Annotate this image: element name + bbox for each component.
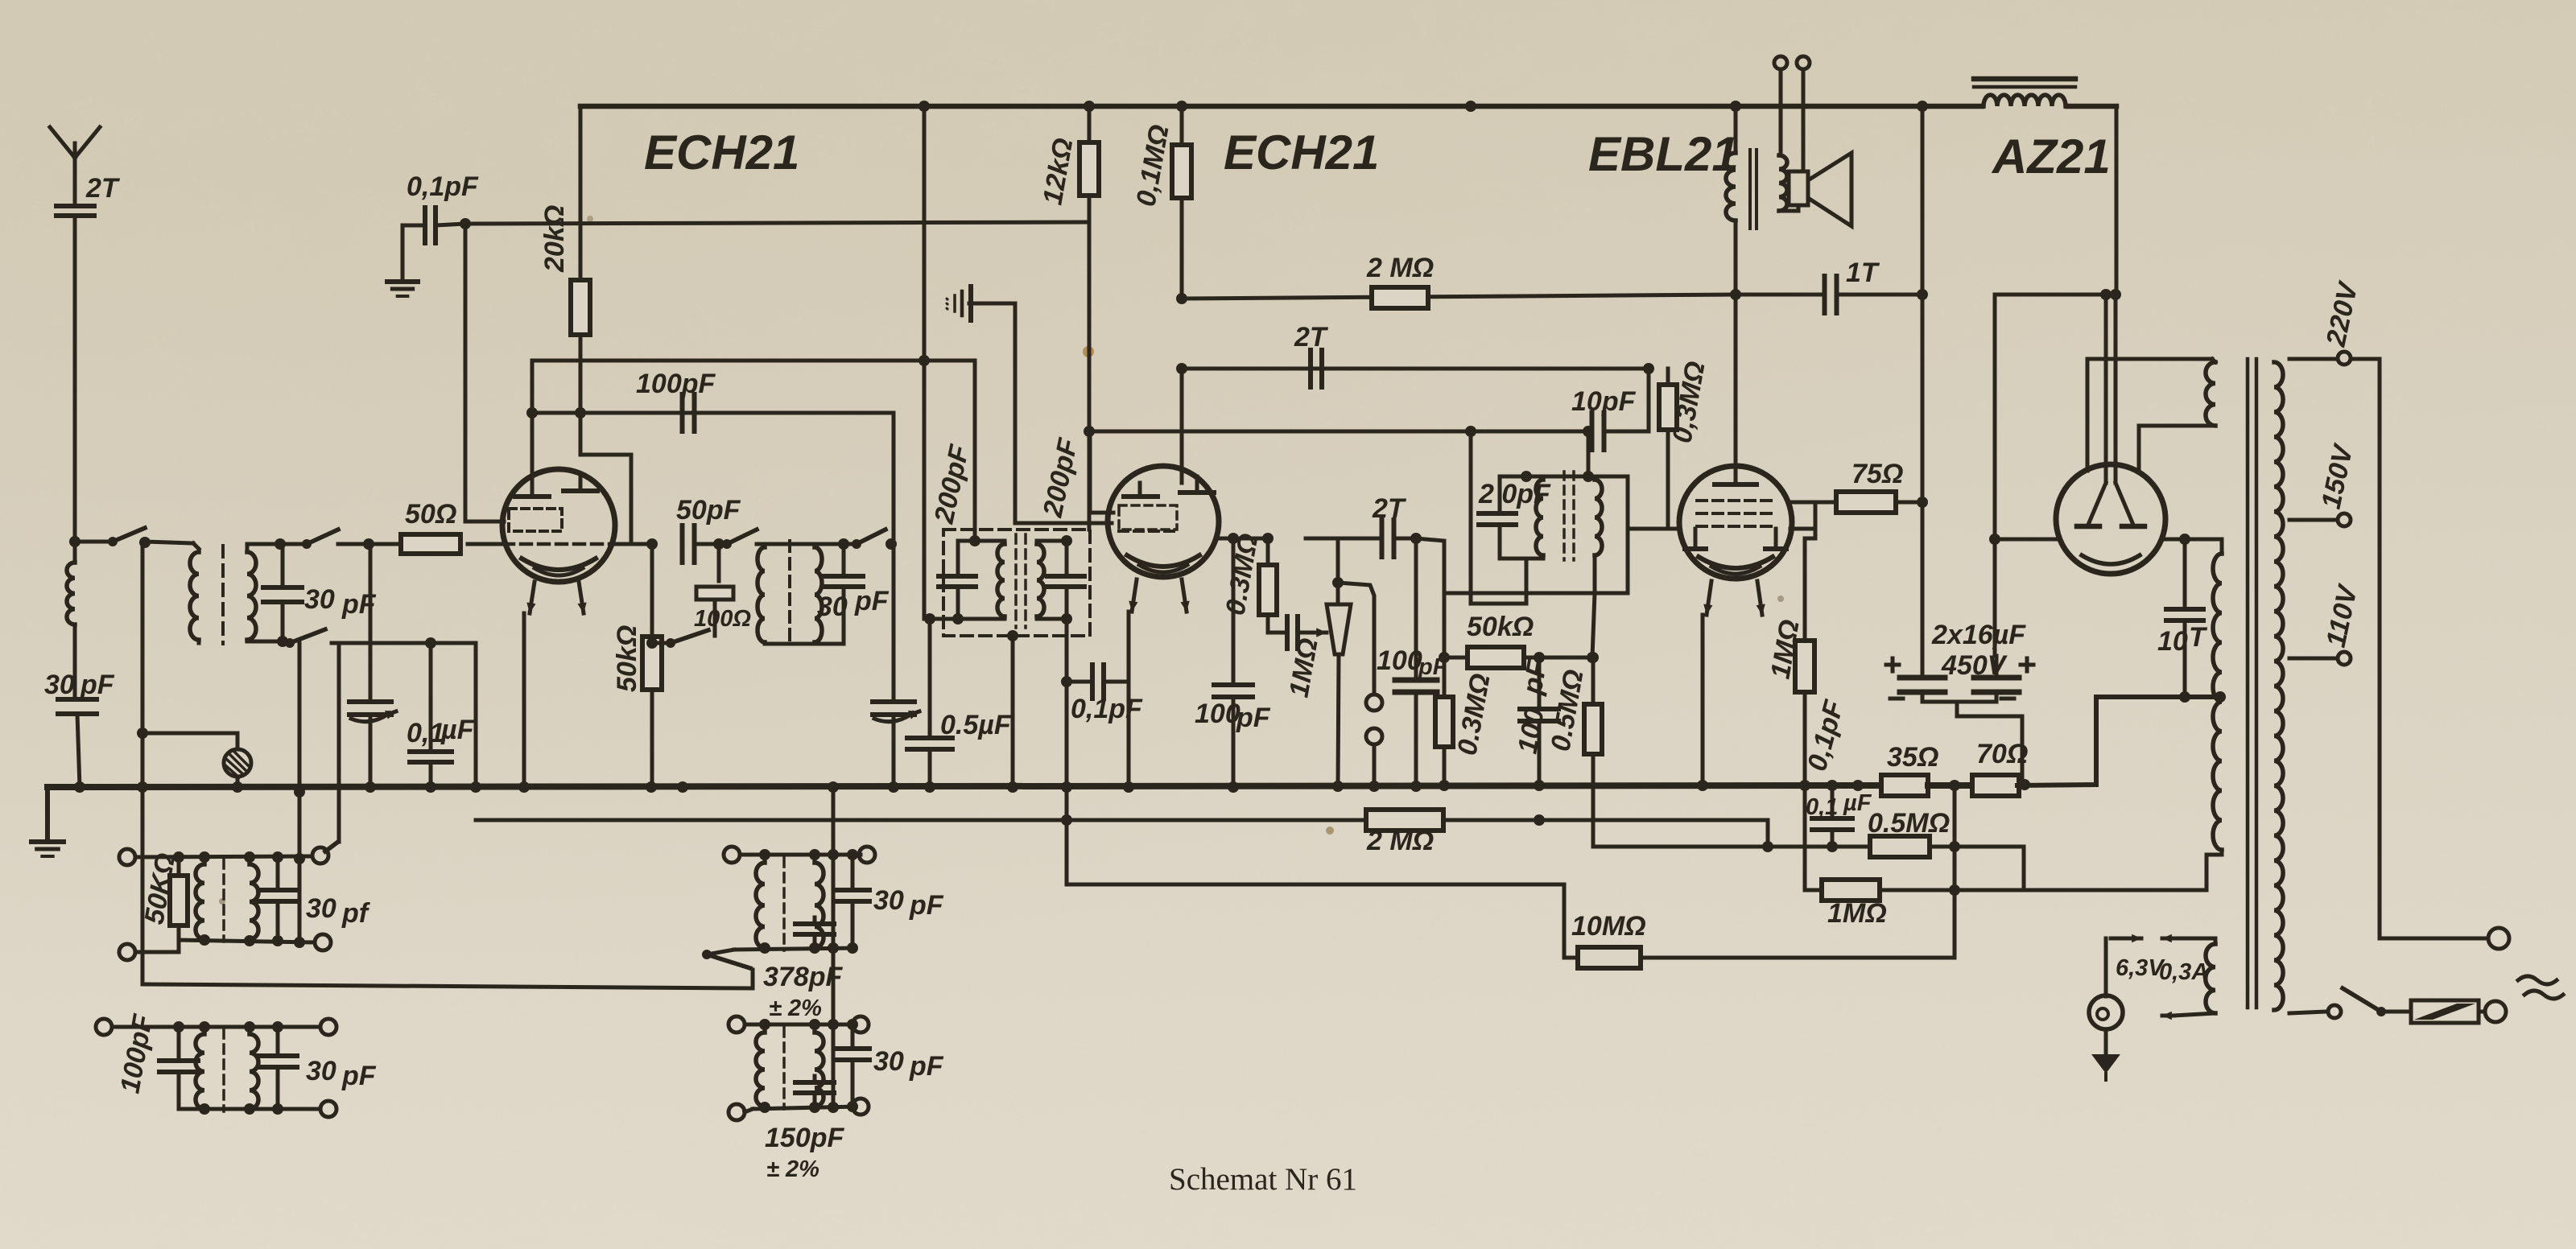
- wire AVC line: [332, 641, 476, 645]
- capacitor coupling to pot: [1285, 616, 1290, 649]
- variable capacitor C-tune1 (osc): [369, 544, 373, 699]
- svg-text:2T: 2T: [85, 173, 121, 204]
- wire L1 2M line: [476, 820, 1768, 847]
- svg-text:0,1: 0,1: [1806, 794, 1838, 820]
- resistor 0.3Mohm det: [1262, 533, 1274, 544]
- capacitor 2x16uF a: [1900, 675, 1945, 681]
- tap 150V: [2289, 518, 2336, 522]
- wire heater 5V left drop: [2086, 359, 2090, 471]
- wire EBL anode right: [1790, 527, 1815, 531]
- IF2 bottom rail: [1500, 557, 1526, 561]
- junction: [838, 538, 849, 550]
- svg-text:pF: pF: [909, 890, 944, 921]
- wire tube1 cathode to bus: [522, 613, 526, 787]
- IF2 core dashed: [1563, 472, 1566, 560]
- terminal 150 right bottom: [852, 1099, 869, 1115]
- speaker terminals: [1774, 56, 1787, 69]
- svg-text:0.5MΩ: 0.5MΩ: [1868, 808, 1950, 839]
- 150 top rail: [745, 1023, 855, 1027]
- tube2 grid dashed: [1119, 530, 1179, 533]
- wire 6.3V top to heaters: [2173, 938, 2215, 944]
- dashed alignment box: [943, 530, 1090, 636]
- resistor 50kohm osc: [650, 544, 654, 637]
- ground symbol IF (rotated): [968, 286, 973, 320]
- svg-text:30: 30: [873, 1046, 904, 1077]
- terminal sec1 right top: [312, 847, 328, 864]
- wire 1099 link: [1067, 787, 1564, 958]
- ground symbol lamp: [2091, 1054, 2120, 1074]
- capacitor int 150: [795, 1080, 834, 1085]
- tube1 grid dashed line: [503, 542, 616, 546]
- wire secondary top to switch line: [247, 544, 280, 552]
- svg-text:µF: µF: [440, 715, 475, 745]
- terminal sec2 left: [96, 1019, 112, 1035]
- wire IF1 bottom rail: [765, 642, 844, 644]
- tap 220V: [2289, 357, 2336, 361]
- resistor 12kohm: [1080, 142, 1099, 196]
- svg-text:± 2%: ± 2%: [769, 995, 822, 1021]
- junction: [1762, 841, 1773, 852]
- capacitor 30pF 378: [836, 888, 869, 892]
- transformer core dashed: [221, 546, 225, 644]
- junction: [646, 538, 658, 550]
- wire lamp branch arrow: [2104, 938, 2108, 996]
- svg-text:30: 30: [306, 1056, 336, 1086]
- wire EBL anode vertical: [1734, 106, 1738, 153]
- resistor 35ohm in bus: [1881, 775, 1928, 796]
- wire vert 1148 top: [923, 106, 927, 619]
- svg-text:10pF: 10pF: [1571, 386, 1637, 417]
- antenna: [73, 143, 77, 203]
- capacitor 100pF IF2 in: [1214, 682, 1253, 687]
- output transformer primary: [1726, 153, 1736, 221]
- resistor 100ohm: [717, 544, 721, 581]
- junction: [1084, 426, 1095, 437]
- wire 2M line: [1182, 295, 1736, 299]
- wire mains top right: [2351, 359, 2486, 938]
- junction: [460, 218, 471, 229]
- resistor 70ohm in bus: [1972, 775, 2019, 796]
- wire mid vertical: [832, 787, 836, 948]
- svg-text:0,1pF: 0,1pF: [1071, 694, 1143, 724]
- svg-text:20kΩ: 20kΩ: [539, 205, 570, 273]
- svg-text:100: 100: [1377, 645, 1422, 676]
- svg-text:EBL21: EBL21: [1588, 127, 1739, 181]
- junction: [1534, 814, 1545, 826]
- wire 448 corner into box: [973, 361, 977, 541]
- capacitor 30pF antenna: [58, 697, 97, 702]
- junction: [1410, 533, 1422, 544]
- EBL cathode arrows: [1707, 581, 1711, 615]
- capacitor 30pF 150: [836, 1046, 869, 1051]
- power transformer core: [2246, 359, 2250, 1008]
- junction: [1949, 884, 1960, 896]
- capacitor 200pF left: [939, 574, 976, 579]
- svg-text:450V: 450V: [1941, 650, 2008, 681]
- junction: [713, 538, 724, 550]
- wire to 50ohm: [369, 542, 399, 546]
- wire 5V bottom: [2139, 426, 2215, 471]
- svg-text:30: 30: [44, 670, 75, 700]
- box right unit top rail: [1037, 539, 1067, 543]
- junction: [1643, 363, 1654, 374]
- svg-text:1T: 1T: [1846, 258, 1880, 288]
- terminal 378 right: [859, 847, 875, 863]
- wire cap left to ground: [402, 225, 425, 280]
- junction: [2179, 534, 2190, 545]
- junction: [1917, 289, 1928, 300]
- switch SW1c: [283, 641, 287, 643]
- svg-text:100pF: 100pF: [636, 369, 716, 399]
- wire 448 line left segment: [532, 359, 975, 363]
- wire switch to coil: [193, 543, 199, 549]
- wire 536 line: [1089, 430, 1471, 434]
- terminal 150 left bottom: [729, 1104, 745, 1120]
- junction: [1583, 426, 1594, 437]
- IF1 core dashed: [788, 541, 791, 645]
- resistor 0.3Mohm AVC: [1443, 657, 1447, 697]
- wire AVC corner down: [474, 643, 478, 787]
- capacitor 0.1pF AVC: [423, 208, 427, 243]
- wire pot top: [1336, 538, 1340, 604]
- junction: [363, 538, 374, 550]
- resistor 50kohm det: [1468, 647, 1524, 668]
- wire elco bottoms join: [1922, 700, 1992, 704]
- HV center tap: [2179, 691, 2190, 703]
- wire tube2 output right: [1216, 537, 1268, 541]
- IF2 top rail: [1500, 475, 1588, 479]
- capacitor 10T: [2166, 607, 2203, 612]
- wire EBL cathode to bus: [1701, 615, 1705, 785]
- resistor 2Mohm bottom: [1366, 810, 1443, 831]
- EBL grids dashed: [1697, 499, 1774, 502]
- svg-text:2 0pF: 2 0pF: [1478, 479, 1551, 509]
- terminal 378 left: [724, 847, 740, 863]
- svg-text:T: T: [2189, 622, 2208, 653]
- junction: [1176, 293, 1187, 304]
- wire 50k line: [1525, 593, 1595, 657]
- wire 536 branch down: [1471, 431, 1526, 604]
- svg-text:10: 10: [2157, 626, 2188, 657]
- svg-text:50kΩ: 50kΩ: [612, 625, 642, 692]
- wire EBL right junction: [1814, 502, 1818, 538]
- wire EBL screen right: [1792, 501, 1815, 505]
- variable capacitor C-tune2: [892, 544, 896, 699]
- wire IF2 sec bottom down: [1593, 559, 1597, 593]
- 378 bottom rail: [707, 950, 734, 954]
- svg-text:30: 30: [873, 885, 904, 916]
- tube2 vertical anode: [1180, 369, 1184, 483]
- resistor 1Mohm bottom: [1822, 880, 1880, 901]
- wire mains bottom out: [2289, 1012, 2326, 1013]
- wire heater winding 5V top: [2087, 357, 2212, 361]
- capacitor 30pF sec2: [258, 1053, 297, 1058]
- trimmer hatched disc: [224, 749, 251, 777]
- resistor 0.5Mohm bottom: [1870, 836, 1930, 857]
- terminal 150 left top: [729, 1016, 745, 1033]
- switch SW osc C: [666, 638, 675, 648]
- svg-text:30: 30: [304, 584, 335, 615]
- capacitor 100pF det: [1520, 707, 1558, 711]
- svg-text:ECH21: ECH21: [644, 126, 799, 179]
- tube ECH21 #2 envelope: [1108, 466, 1219, 577]
- wire tune1 to bus: [369, 715, 373, 787]
- capacitor 20pF IF2: [1479, 511, 1516, 516]
- wire right column vertical: [298, 643, 302, 942]
- wire 6.3V bottom arrow: [2173, 1013, 2215, 1016]
- wire to padder circle: [142, 733, 237, 748]
- coil IF2 secondary: [1595, 480, 1602, 555]
- wire disc to bus: [236, 779, 240, 787]
- junction: [919, 355, 930, 366]
- capacitor 1T NFB: [1823, 276, 1827, 313]
- antenna coil: [67, 563, 75, 624]
- tube1 top electrodes: [530, 483, 535, 495]
- wire lamp to ground: [2104, 1029, 2108, 1054]
- box core dashed: [1014, 534, 1018, 628]
- svg-text:ECH21: ECH21: [1224, 126, 1379, 179]
- wire L3 1M line: [1805, 888, 2207, 892]
- wire pot bottom to bus: [1338, 654, 1339, 786]
- wire line to switch SW1b: [280, 542, 302, 546]
- capacitor 0.1uF EBL cath: [1812, 816, 1852, 821]
- tube2 cathode arcs: [1127, 555, 1199, 567]
- coil HV secondary: [2213, 554, 2222, 850]
- svg-text:150pF: 150pF: [765, 1123, 844, 1153]
- output transformer core: [1748, 150, 1752, 229]
- coil sec1 a: [196, 864, 204, 939]
- AZ plates: [2077, 524, 2099, 530]
- svg-text:2 MΩ: 2 MΩ: [1366, 826, 1434, 856]
- wire AZ right side: [2164, 538, 2219, 542]
- svg-text:pF: pF: [1236, 703, 1271, 733]
- switch mains: [2376, 1007, 2386, 1016]
- coil IF1 secondary: [815, 547, 822, 642]
- EBL side electrodes: [1694, 529, 1698, 547]
- junction: [526, 407, 538, 418]
- coil 150 a: [756, 1033, 765, 1107]
- speaker: [1789, 171, 1808, 205]
- resistor 50ohm: [401, 534, 460, 554]
- potentiometer 1M (volume): [1327, 604, 1351, 654]
- wire 50ohm to tube: [468, 542, 503, 546]
- wire primary to 1T line: [1734, 221, 1738, 468]
- svg-text:50Ω: 50Ω: [405, 499, 456, 530]
- coil sec2 a: [196, 1034, 204, 1109]
- switch band SW1a: [75, 540, 109, 544]
- wire sec1 left bottom link: [135, 939, 179, 952]
- resistor 0.1Mohm: [1180, 106, 1184, 145]
- resistor 0.3Mohm EBL grid: [1666, 369, 1670, 385]
- coil 378 a: [756, 863, 765, 948]
- tube2 cathode arrows: [1132, 579, 1137, 612]
- paper specks: [1083, 346, 1094, 357]
- coil IF2 primary: [1536, 480, 1543, 555]
- resistor 10Mohm: [1578, 947, 1641, 968]
- 150 bottom rail: [745, 1109, 753, 1112]
- terminal sec1 right bottom: [315, 934, 331, 950]
- coil box right: [1037, 544, 1044, 616]
- junction: [425, 637, 436, 649]
- svg-text:0.5µF: 0.5µF: [940, 710, 1012, 740]
- junction: [1989, 534, 2000, 545]
- capacitor 30pF sec1: [258, 888, 297, 892]
- resistor 75ohm: [1815, 501, 1839, 505]
- resistor 2Mohm top: [1372, 287, 1428, 308]
- tube AZ21 envelope: [2056, 464, 2165, 574]
- wire hook tube1 right: [580, 413, 631, 544]
- junction pot top: [1332, 577, 1344, 588]
- svg-text:50pF: 50pF: [676, 495, 741, 526]
- svg-text:6,3V: 6,3V: [2116, 955, 2165, 981]
- wire box right down: [1065, 619, 1069, 787]
- terminal sec2 right top: [320, 1019, 336, 1035]
- coil 150 b: [815, 1033, 824, 1107]
- box left bottom rail: [930, 617, 1005, 621]
- wire L2 0.5M line: [1593, 847, 2024, 890]
- svg-text:pF: pF: [854, 586, 890, 616]
- terminal pickup 1: [1366, 695, 1382, 711]
- wire IF2 sec to EBL grid: [1588, 476, 1628, 593]
- capacitor int 378: [795, 921, 834, 926]
- terminal winding bottom: [2328, 1005, 2341, 1018]
- tube1 cathode arcs: [522, 559, 596, 570]
- resistor 0.5Mohm AVC: [1591, 657, 1596, 704]
- wire 1110 corner: [892, 413, 896, 544]
- svg-text:2T: 2T: [1294, 322, 1329, 352]
- capacitor 2T (antenna series): [56, 204, 94, 208]
- wire: [757, 542, 763, 546]
- svg-text:pF: pF: [909, 1051, 944, 1082]
- wire osc switch line: [142, 970, 753, 988]
- tube1 cathode arrows: [530, 582, 535, 613]
- sec2 top rail: [112, 1025, 320, 1029]
- wire IF1 top link: [765, 542, 815, 546]
- svg-text:50kΩ: 50kΩ: [1467, 612, 1534, 642]
- AZ heater arc: [2082, 555, 2140, 564]
- wire to bus: [77, 714, 80, 787]
- coil IF1 primary: [758, 547, 765, 642]
- AC tilde: [2518, 976, 2557, 984]
- svg-text:30: 30: [306, 893, 336, 924]
- coil sec1 b: [250, 864, 258, 939]
- wire grid drop: [465, 224, 504, 521]
- capacitor 200pF right: [1047, 574, 1084, 579]
- wire 10pF down to IF2: [1587, 431, 1591, 476]
- wire AF to 100pF node: [1393, 537, 1416, 541]
- coil box left: [997, 544, 1005, 616]
- switch SW osc B: [815, 542, 853, 546]
- EBL cathode arcs: [1699, 557, 1773, 568]
- sec2 bottom rail: [179, 1107, 320, 1111]
- wire top B+ bus: [580, 104, 1982, 109]
- wire tube2 cathode to bus: [1127, 612, 1131, 787]
- wire 536 to 458 link: [1647, 369, 1651, 431]
- wire HV top to AZ: [2220, 539, 2224, 554]
- capacitor 100pF sec2: [159, 1058, 198, 1063]
- terminal sec1 left bottom: [119, 944, 135, 960]
- output secondary: [1779, 155, 1787, 211]
- capacitor 0.1pF mixer: [1090, 665, 1095, 699]
- svg-text:pF: pF: [1517, 657, 1553, 698]
- coil 6.3V winding: [2206, 944, 2215, 1013]
- junction 20k bottom: [575, 407, 586, 418]
- wire: [694, 542, 724, 546]
- resistor 20kohm: [579, 106, 583, 281]
- capacitor 30pF bandfilter: [263, 585, 302, 590]
- junction: [1228, 533, 1239, 544]
- capacitor 100pF AF: [1395, 678, 1437, 683]
- svg-text:± 2%: ± 2%: [766, 1156, 819, 1182]
- plus sign b: [2021, 663, 2033, 667]
- tube EBL21 envelope: [1679, 466, 1792, 579]
- capacitor 10pF: [1590, 413, 1595, 450]
- wire 12k vertical: [1088, 222, 1092, 530]
- bus junction dots: [74, 781, 85, 793]
- svg-text:pF: pF: [80, 670, 115, 700]
- svg-text:75Ω: 75Ω: [1851, 459, 1903, 489]
- coil mains primary: [2274, 362, 2283, 1010]
- junction: [275, 538, 286, 550]
- junction: [1730, 289, 1741, 300]
- svg-text:Schemat Nr 61: Schemat Nr 61: [1169, 1162, 1357, 1197]
- wire L4 10M line: [1564, 785, 1955, 958]
- filter choke L1: [1984, 95, 2066, 106]
- capacitor 2x16uF b: [1974, 675, 2019, 681]
- junction: [1176, 363, 1187, 374]
- tap 110V: [2289, 657, 2336, 661]
- ground symbol main left: [45, 787, 50, 840]
- wire B+ to elco: [1993, 295, 1997, 656]
- 150 core dashed: [782, 1028, 786, 1109]
- terminal mains a: [2488, 928, 2509, 949]
- svg-text:100: 100: [1195, 699, 1241, 729]
- wire AF line 2T: [1306, 537, 1338, 541]
- 378 top rail: [740, 853, 861, 857]
- svg-text:2 MΩ: 2 MΩ: [1366, 253, 1434, 283]
- tube2 top electrodes: [1138, 483, 1142, 495]
- wire 2T line: [1182, 367, 1649, 371]
- svg-text:35Ω: 35Ω: [1887, 742, 1938, 773]
- capacitor 0.1uF cathode: [429, 643, 433, 748]
- svg-text:2T: 2T: [1372, 493, 1407, 524]
- tube ECH21 #1 envelope: [502, 469, 615, 582]
- coil input transformer secondary: [247, 552, 256, 640]
- wire 100pF line: [532, 411, 894, 415]
- capacitor 2T AF: [1380, 520, 1385, 557]
- capacitor 2T osc: [1308, 350, 1313, 387]
- terminal sec1 left top: [119, 849, 135, 865]
- wire tube1 to 50pF: [616, 542, 652, 546]
- coil 378 b: [815, 863, 824, 948]
- svg-text:30: 30: [817, 592, 848, 622]
- terminal mains b: [2485, 1001, 2506, 1022]
- sec1 top rail: [135, 856, 312, 857]
- wire vert 661: [530, 361, 535, 483]
- terminal pickup 2: [1366, 728, 1382, 744]
- svg-text:0,3A: 0,3A: [2159, 959, 2208, 985]
- wire primary bottom: [197, 640, 201, 643]
- wire 0.1pF line to 12k: [436, 222, 1089, 225]
- resistor 1Mohm EBL: [1803, 538, 1807, 640]
- junction secondary bottom: [277, 636, 288, 647]
- fuse: [2392, 1010, 2411, 1014]
- junction dots on top bus: [919, 101, 930, 112]
- wire ground to grid2: [969, 303, 1112, 523]
- wire antenna down: [73, 216, 77, 542]
- coil sec2 b: [250, 1034, 258, 1109]
- capacitor 30pF IF1: [824, 574, 863, 579]
